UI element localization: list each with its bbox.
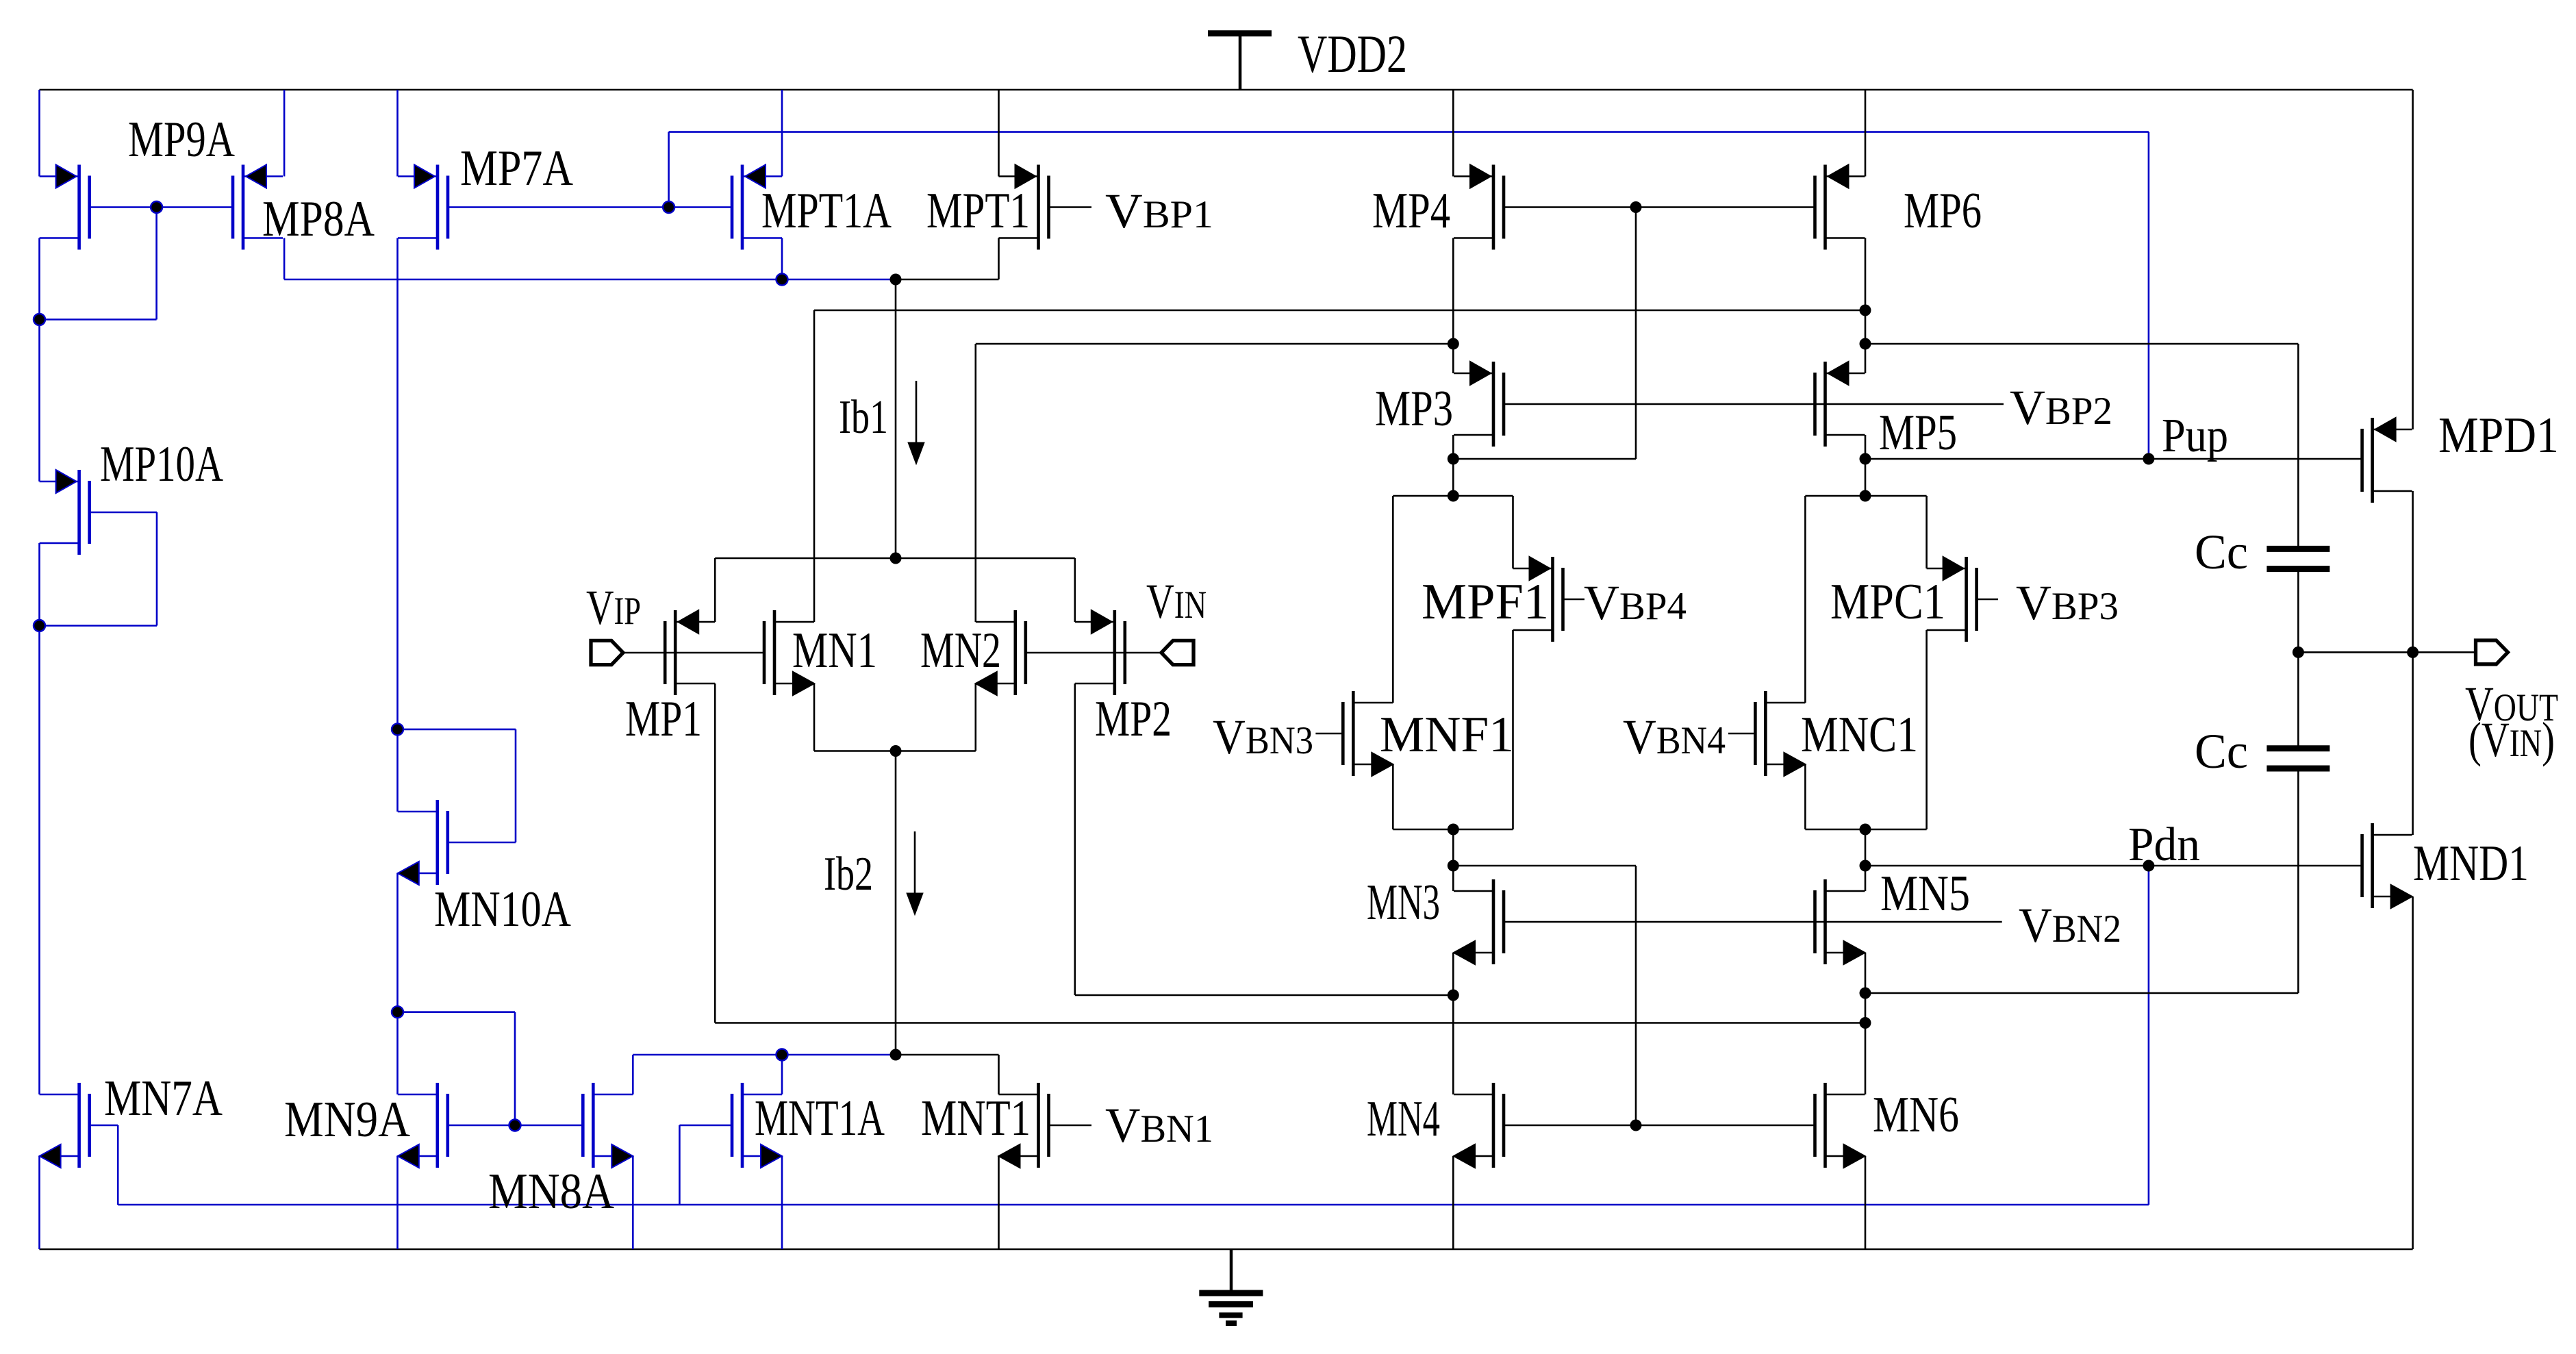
wire MNT1A drain up: [781, 1055, 783, 1094]
transistor MN5: [1815, 879, 1865, 964]
svg-text:MPT1: MPT1: [926, 183, 1030, 239]
junction MN6 drain node: [1860, 1017, 1871, 1029]
junction loop top right node: [1860, 490, 1871, 502]
svg-text:Pdn: Pdn: [2128, 818, 2200, 871]
transistor MP10A: [40, 470, 90, 555]
wire MP2 source down: [1074, 684, 1076, 995]
svg-text:MNT1: MNT1: [921, 1090, 1031, 1146]
wire MP6 drain to VDD: [1865, 90, 1867, 177]
junction node Pup blue tap: [2143, 453, 2154, 465]
transistor MN4: [1454, 1083, 1504, 1168]
wire MPC1 MNC1 loop bottom: [1805, 829, 1926, 831]
wire MP5 source to floating loop: [1865, 435, 1867, 496]
junction MP4 source MP3 drain node: [1448, 338, 1459, 350]
transistor MP2: [1075, 610, 1125, 695]
wire node MP9A gate down: [155, 208, 157, 320]
port VOUT: [2476, 640, 2508, 664]
svg-text:MN5: MN5: [1880, 866, 1970, 922]
wire MN2 drain up: [975, 344, 977, 622]
wire MPT1A drain to VDD: [781, 90, 783, 177]
wire MP6 source down: [1865, 238, 1867, 374]
svg-text:MN3: MN3: [1367, 875, 1440, 931]
wire VBP1 stub: [1049, 206, 1092, 208]
wire ground bottom rail: [40, 1249, 2413, 1251]
wire right border VDD to MPD1 drain: [2412, 90, 2414, 429]
wire upper tail node: [715, 557, 1075, 560]
transistor MP8A: [233, 165, 283, 250]
transistor MNC1: [1755, 691, 1805, 776]
svg-text:VIN: VIN: [1146, 574, 1207, 629]
svg-text:VBP1: VBP1: [1105, 184, 1213, 238]
junction MP3 source node A: [1448, 453, 1459, 465]
wire MN10A source to MN9A drain: [396, 873, 399, 1094]
port VIN: [1161, 640, 1194, 664]
transistor MN10A: [398, 800, 448, 885]
wire MP4 drain to VDD: [1452, 90, 1454, 177]
svg-text:VBN3: VBN3: [1213, 710, 1313, 764]
wire MPC1 MNC1 loop right: [1925, 496, 1928, 568]
wire MN5 source node to lower cap: [1865, 992, 2298, 994]
wire node to MP3 drain: [1452, 344, 1454, 373]
wire MN1 drain up: [813, 310, 816, 622]
wire MN4 gate to MN6 gate: [1504, 1125, 1815, 1127]
svg-text:MNF1: MNF1: [1380, 707, 1514, 763]
wire Ib1 node to MPT1 source: [896, 279, 999, 281]
wire MN7A gate down to blue rail: [90, 1125, 118, 1127]
wire MN9A gate to MN8A gate: [448, 1125, 583, 1127]
wire VBN2 gate line MN3 MN5: [1504, 921, 2002, 923]
transistor MP5: [1815, 362, 1865, 447]
wire loop to MN5 drain: [1865, 829, 1867, 891]
junction MN3 source MN4 drain node: [1448, 990, 1459, 1001]
wire MN5 source to MN6 drain: [1865, 953, 1867, 1094]
wire VBP3 stub: [1977, 599, 1998, 601]
wire MNT1A source to ground: [781, 1156, 783, 1249]
transistor MND1: [2362, 823, 2412, 908]
junction MNT1A drain node: [776, 1049, 788, 1061]
svg-text:MPT1A: MPT1A: [761, 183, 892, 239]
wire VBP4 stub: [1563, 599, 1585, 601]
svg-text:MP4: MP4: [1372, 183, 1450, 239]
wire node Pup to MPD1 gate: [1865, 458, 2362, 460]
wire VIN input line: [1026, 652, 1161, 654]
junction MN10A drain-gate node: [392, 723, 403, 735]
svg-text:MNC1: MNC1: [1801, 707, 1918, 763]
wire MN6 source to ground: [1865, 1156, 1867, 1249]
junction diff pair upper tail: [890, 553, 902, 564]
wire MP8A drain to VDD: [283, 90, 286, 177]
junction MN3 drain node: [1448, 860, 1459, 872]
junction node Ib2 bottom / MNT1 drain: [890, 1049, 902, 1061]
wire Pup to compensation cap: [1865, 343, 2298, 345]
wire VDD to MP9A drain: [38, 90, 40, 177]
transistor MN2: [976, 610, 1026, 695]
transistor MNT1A: [732, 1083, 782, 1168]
transistor MPD1: [2362, 418, 2412, 503]
wire MNT1 source to ground: [998, 1156, 1000, 1249]
wire bus MN1 drain to MP5 MP6 node: [814, 310, 1865, 312]
wire blue rail up to Pdn node: [2148, 866, 2150, 1205]
transistor MP4: [1454, 165, 1504, 250]
junction MP9A source node: [34, 314, 45, 325]
wire MPF1 MNF1 loop right: [1512, 496, 1514, 568]
wire MP9A source to MP10A drain: [38, 238, 40, 482]
svg-text:MND1: MND1: [2413, 836, 2529, 892]
svg-text:MNT1A: MNT1A: [755, 1090, 885, 1146]
wire MP7A drain to VDD: [396, 90, 399, 177]
junction MP6 source bus node: [1860, 305, 1871, 316]
junction MPT1A source node: [776, 274, 788, 286]
transistor MNF1: [1343, 691, 1393, 776]
transistor MN6: [1815, 1083, 1865, 1168]
wire loop to MN3 drain: [1452, 829, 1454, 891]
wire MPT1 drain to VDD: [998, 90, 1000, 177]
wire blue bottom rail: [118, 1204, 2149, 1206]
transistor MP7A: [398, 165, 448, 250]
wire bus MN2 drain to MP3 MP4 node: [976, 343, 1454, 345]
svg-text:MN9A: MN9A: [284, 1092, 410, 1148]
transistor MN3: [1454, 879, 1504, 964]
wire MP1 source to MN5 MN6 node: [715, 1022, 1865, 1024]
capacitor Cc lower: [2266, 745, 2329, 751]
transistor MN1: [764, 610, 814, 695]
junction loop bottom right node: [1860, 824, 1871, 836]
wire MN8A drain up: [632, 1055, 634, 1094]
wire cap branch upper: [2297, 344, 2299, 549]
wire VBN1 stub: [1049, 1125, 1092, 1127]
junction cap branch VOUT node: [2293, 647, 2304, 658]
wire VBP2 gate line MP3 MP5: [1504, 403, 2004, 405]
wire blue rail down to Pup node: [2148, 132, 2150, 459]
wire MN8A drain to tail node: [633, 1054, 896, 1056]
wire cap branch lower: [2297, 768, 2299, 993]
wire MND1 source to ground rail: [2412, 897, 2414, 1249]
wire MPF1 MNF1 loop bottom: [1393, 829, 1513, 831]
svg-text:VIP: VIP: [586, 580, 641, 635]
wire MP4 gate to MP6 gate: [1504, 206, 1815, 208]
svg-text:MN1: MN1: [792, 623, 877, 679]
wire blue gate rail top: [669, 131, 2149, 133]
wire MPD1 source to MND1 drain: [2412, 491, 2414, 835]
wire node Pdn to MND1 gate: [1865, 865, 2362, 867]
wire MP1 source down: [714, 684, 716, 1023]
svg-text:VDD2: VDD2: [1298, 24, 1407, 84]
wire VBN3 stub: [1315, 733, 1343, 735]
junction node Pup origin: [1860, 338, 1871, 350]
wire VDD2 top rail: [40, 89, 2413, 91]
wire Ib2 branch down to MNT1 drain node: [895, 751, 897, 1055]
transistor MP3: [1454, 362, 1504, 447]
svg-text:VBP4: VBP4: [1584, 575, 1687, 630]
wire gate rail riser: [668, 132, 670, 208]
wire Ib1 branch down to diff pair tail: [895, 279, 897, 558]
transistor MPT1: [999, 165, 1049, 250]
ground symbol: [1230, 1249, 1233, 1293]
wire MP9A gate to MP8A gate: [90, 206, 233, 208]
wire VIP input line: [623, 652, 764, 654]
svg-text:MP9A: MP9A: [128, 112, 235, 168]
wire MN9A source to ground: [396, 1156, 399, 1249]
wire MN3 drain node to MN4 MN6 gates: [1453, 865, 1636, 867]
wire MP7A source to MN10A drain: [396, 238, 399, 812]
transistor MN7A: [40, 1083, 90, 1168]
junction MN5 drain node Pdn: [1860, 860, 1871, 872]
svg-text:MP7A: MP7A: [460, 140, 573, 197]
transistor MPC1: [1927, 557, 1977, 642]
junction node Ib1 top: [890, 274, 902, 286]
svg-text:Pup: Pup: [2162, 410, 2228, 462]
wire MPT1A source down: [781, 238, 783, 280]
wire lower tail node: [813, 684, 816, 751]
wire MNT1A gate to blue rail: [679, 1125, 732, 1127]
svg-text:MN4: MN4: [1367, 1091, 1440, 1147]
wire MPF1 MNF1 loop left: [1392, 496, 1394, 703]
svg-text:VBN2: VBN2: [2019, 898, 2121, 953]
junction VOUT node: [2407, 647, 2419, 658]
junction MN9A MN8A gate node: [509, 1120, 521, 1131]
svg-text:VBN1: VBN1: [1105, 1098, 1213, 1153]
wire MP3 source to floating loop: [1452, 435, 1454, 496]
wire MPC1 MNC1 loop left: [1804, 496, 1806, 703]
transistor MN9A: [398, 1083, 448, 1168]
transistor MP1: [665, 610, 715, 695]
wire MPC1 MNC1 loop top: [1805, 495, 1926, 497]
transistor MN8A: [583, 1083, 633, 1168]
svg-text:MN8A: MN8A: [488, 1164, 614, 1220]
wire MP7A gate to MPT1A gate: [448, 206, 732, 208]
wire tail node to MNT1 drain: [896, 1054, 999, 1056]
svg-text:MPC1: MPC1: [1830, 574, 1945, 630]
svg-text:MP8A: MP8A: [262, 191, 375, 247]
transistor MPF1: [1513, 557, 1563, 642]
junction diff pair lower tail: [890, 745, 902, 757]
transistor MP9A: [40, 165, 90, 250]
port VIP: [591, 640, 623, 664]
current arrow Ib2: [914, 831, 916, 894]
junction MP10A gate-source node: [34, 620, 45, 631]
svg-text:Cc: Cc: [2195, 724, 2248, 779]
wire between caps through VOUT: [2297, 569, 2299, 749]
svg-text:Cc: Cc: [2195, 525, 2248, 579]
wire MP2 source to MN3 MN4 node: [1075, 994, 1454, 996]
junction MP7A MPT1A gate rail node: [663, 201, 674, 213]
svg-text:Ib1: Ib1: [839, 391, 888, 444]
junction MN5 source node: [1860, 988, 1871, 999]
svg-text:MPF1: MPF1: [1422, 574, 1549, 630]
junction MN10A source node: [392, 1006, 403, 1018]
capacitor Cc upper: [2266, 546, 2329, 552]
svg-text:VBP2: VBP2: [2010, 380, 2112, 435]
wire VOUT line: [2298, 651, 2475, 653]
transistor MPT1A: [732, 165, 782, 250]
wire MPF1 MNF1 loop top: [1393, 495, 1513, 497]
svg-text:MPD1: MPD1: [2438, 408, 2559, 464]
wire MN10A gate loop: [448, 842, 516, 844]
svg-text:MP6: MP6: [1904, 183, 1982, 239]
junction MP9A-MP8A gate node: [151, 201, 162, 213]
junction node Pdn blue tap: [2143, 860, 2154, 872]
transistor MP6: [1815, 165, 1865, 250]
wire MN9A gate riser: [398, 1011, 516, 1013]
junction MN4 MN6 gate node: [1630, 1120, 1642, 1131]
junction MP4 MP6 gate node: [1630, 201, 1642, 213]
wire MP8A source to MPT1A source rail: [284, 279, 896, 281]
svg-text:MP10A: MP10A: [100, 436, 223, 492]
junction loop top left node: [1448, 490, 1459, 502]
wire MN8A source to ground: [632, 1156, 634, 1249]
wire MP10A gate loop: [90, 512, 157, 514]
wire MN7A source to ground rail: [38, 1156, 40, 1249]
wire MN4 source to ground: [1452, 1156, 1454, 1249]
power symbol VDD2: [1239, 34, 1242, 90]
wire VBN4 stub: [1728, 733, 1755, 735]
svg-text:VBP3: VBP3: [2016, 575, 2119, 630]
wire MP4 MP6 gates down to MP3 source node: [1635, 208, 1637, 460]
svg-text:MP1: MP1: [625, 691, 702, 747]
svg-text:VBN4: VBN4: [1623, 710, 1726, 764]
svg-text:MN7A: MN7A: [104, 1070, 223, 1127]
svg-text:MP2: MP2: [1095, 691, 1172, 747]
svg-text:MN2: MN2: [920, 623, 1001, 679]
svg-text:Ib2: Ib2: [824, 848, 873, 901]
junction MP5 source node: [1860, 453, 1871, 465]
svg-text:MP5: MP5: [1879, 405, 1957, 461]
junction loop bottom left node: [1448, 824, 1459, 836]
transistor MNT1: [999, 1083, 1049, 1168]
current arrow Ib1: [916, 381, 918, 444]
wire MP4 source down: [1452, 238, 1454, 344]
svg-text:MN6: MN6: [1873, 1087, 1959, 1143]
wire MP10A source down left edge to MN7A drain: [38, 543, 40, 1094]
wire MN3 source to MN4 drain: [1452, 953, 1454, 1094]
svg-text:MP3: MP3: [1375, 381, 1453, 437]
svg-text:MN10A: MN10A: [434, 881, 571, 938]
wire MP8A source down: [283, 238, 286, 280]
